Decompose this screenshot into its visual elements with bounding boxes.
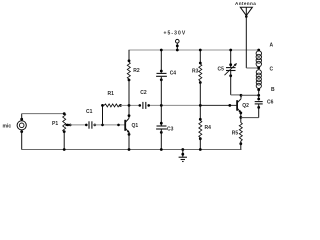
supply terminal +5-30V <box>164 31 187 52</box>
svg-text:C2: C2 <box>140 90 147 96</box>
wire collector to coil tap B <box>241 94 260 97</box>
capacitor C4 <box>156 49 176 106</box>
resistor R3 <box>192 49 202 106</box>
node B label <box>271 87 275 93</box>
svg-text:C1: C1 <box>86 109 93 115</box>
svg-text:C6: C6 <box>267 100 274 106</box>
svg-text:+5-30V: +5-30V <box>164 31 187 37</box>
svg-text:P1: P1 <box>52 121 58 127</box>
inductor L1 upper section <box>256 49 261 67</box>
node C label <box>270 67 274 73</box>
svg-text:Antenna: Antenna <box>235 1 256 6</box>
wire mic column <box>21 114 23 150</box>
node C tap <box>257 67 260 70</box>
antenna <box>235 1 256 18</box>
resistor R1 <box>101 91 122 107</box>
svg-text:R5: R5 <box>232 131 239 137</box>
svg-text:B: B <box>271 87 275 93</box>
transistor Q2 <box>237 94 249 123</box>
node A label <box>270 43 274 49</box>
capacitor C6 <box>255 95 274 117</box>
ground <box>179 148 187 161</box>
node B tap <box>257 88 260 95</box>
svg-text:C4: C4 <box>170 71 177 77</box>
resistor R5 <box>232 123 243 150</box>
capacitor C1 <box>86 109 96 129</box>
resistor R2 <box>127 50 140 105</box>
inductor L1 lower section <box>256 70 261 89</box>
wire C1 to Q1 base <box>93 124 125 127</box>
wire P1 wiper to C1 <box>70 124 88 127</box>
wire C5 bottom to collector node <box>231 94 241 96</box>
wire R1 to base vertical <box>102 105 104 125</box>
wire bottom ground rail <box>22 149 242 151</box>
wire C6 return to emitter <box>241 117 259 119</box>
resistor R4 <box>199 105 211 151</box>
svg-text:R2: R2 <box>133 68 140 74</box>
trimmer capacitor C5 <box>218 49 238 95</box>
svg-text:C5: C5 <box>218 67 225 73</box>
svg-text:Q1: Q1 <box>132 123 139 129</box>
wire P1 lower column <box>63 132 66 151</box>
wire mic to P1 top <box>22 113 65 115</box>
transistor Q1 <box>125 105 138 151</box>
wire top supply rail <box>129 49 260 51</box>
svg-text:R1: R1 <box>108 91 115 97</box>
capacitor C3 <box>156 105 174 151</box>
svg-text:Q2: Q2 <box>242 103 249 109</box>
svg-text:R4: R4 <box>205 125 212 131</box>
wire antenna lead to tap C <box>246 16 258 69</box>
svg-text:C: C <box>270 67 274 73</box>
svg-text:A: A <box>270 43 274 49</box>
svg-text:R3: R3 <box>192 69 199 75</box>
svg-text:mic: mic <box>3 124 12 130</box>
potentiometer P1 <box>52 112 72 133</box>
microphone MIC <box>3 118 27 133</box>
svg-text:C3: C3 <box>167 127 174 133</box>
capacitor C2 <box>139 90 151 109</box>
wire signal bus y105 <box>121 104 237 107</box>
